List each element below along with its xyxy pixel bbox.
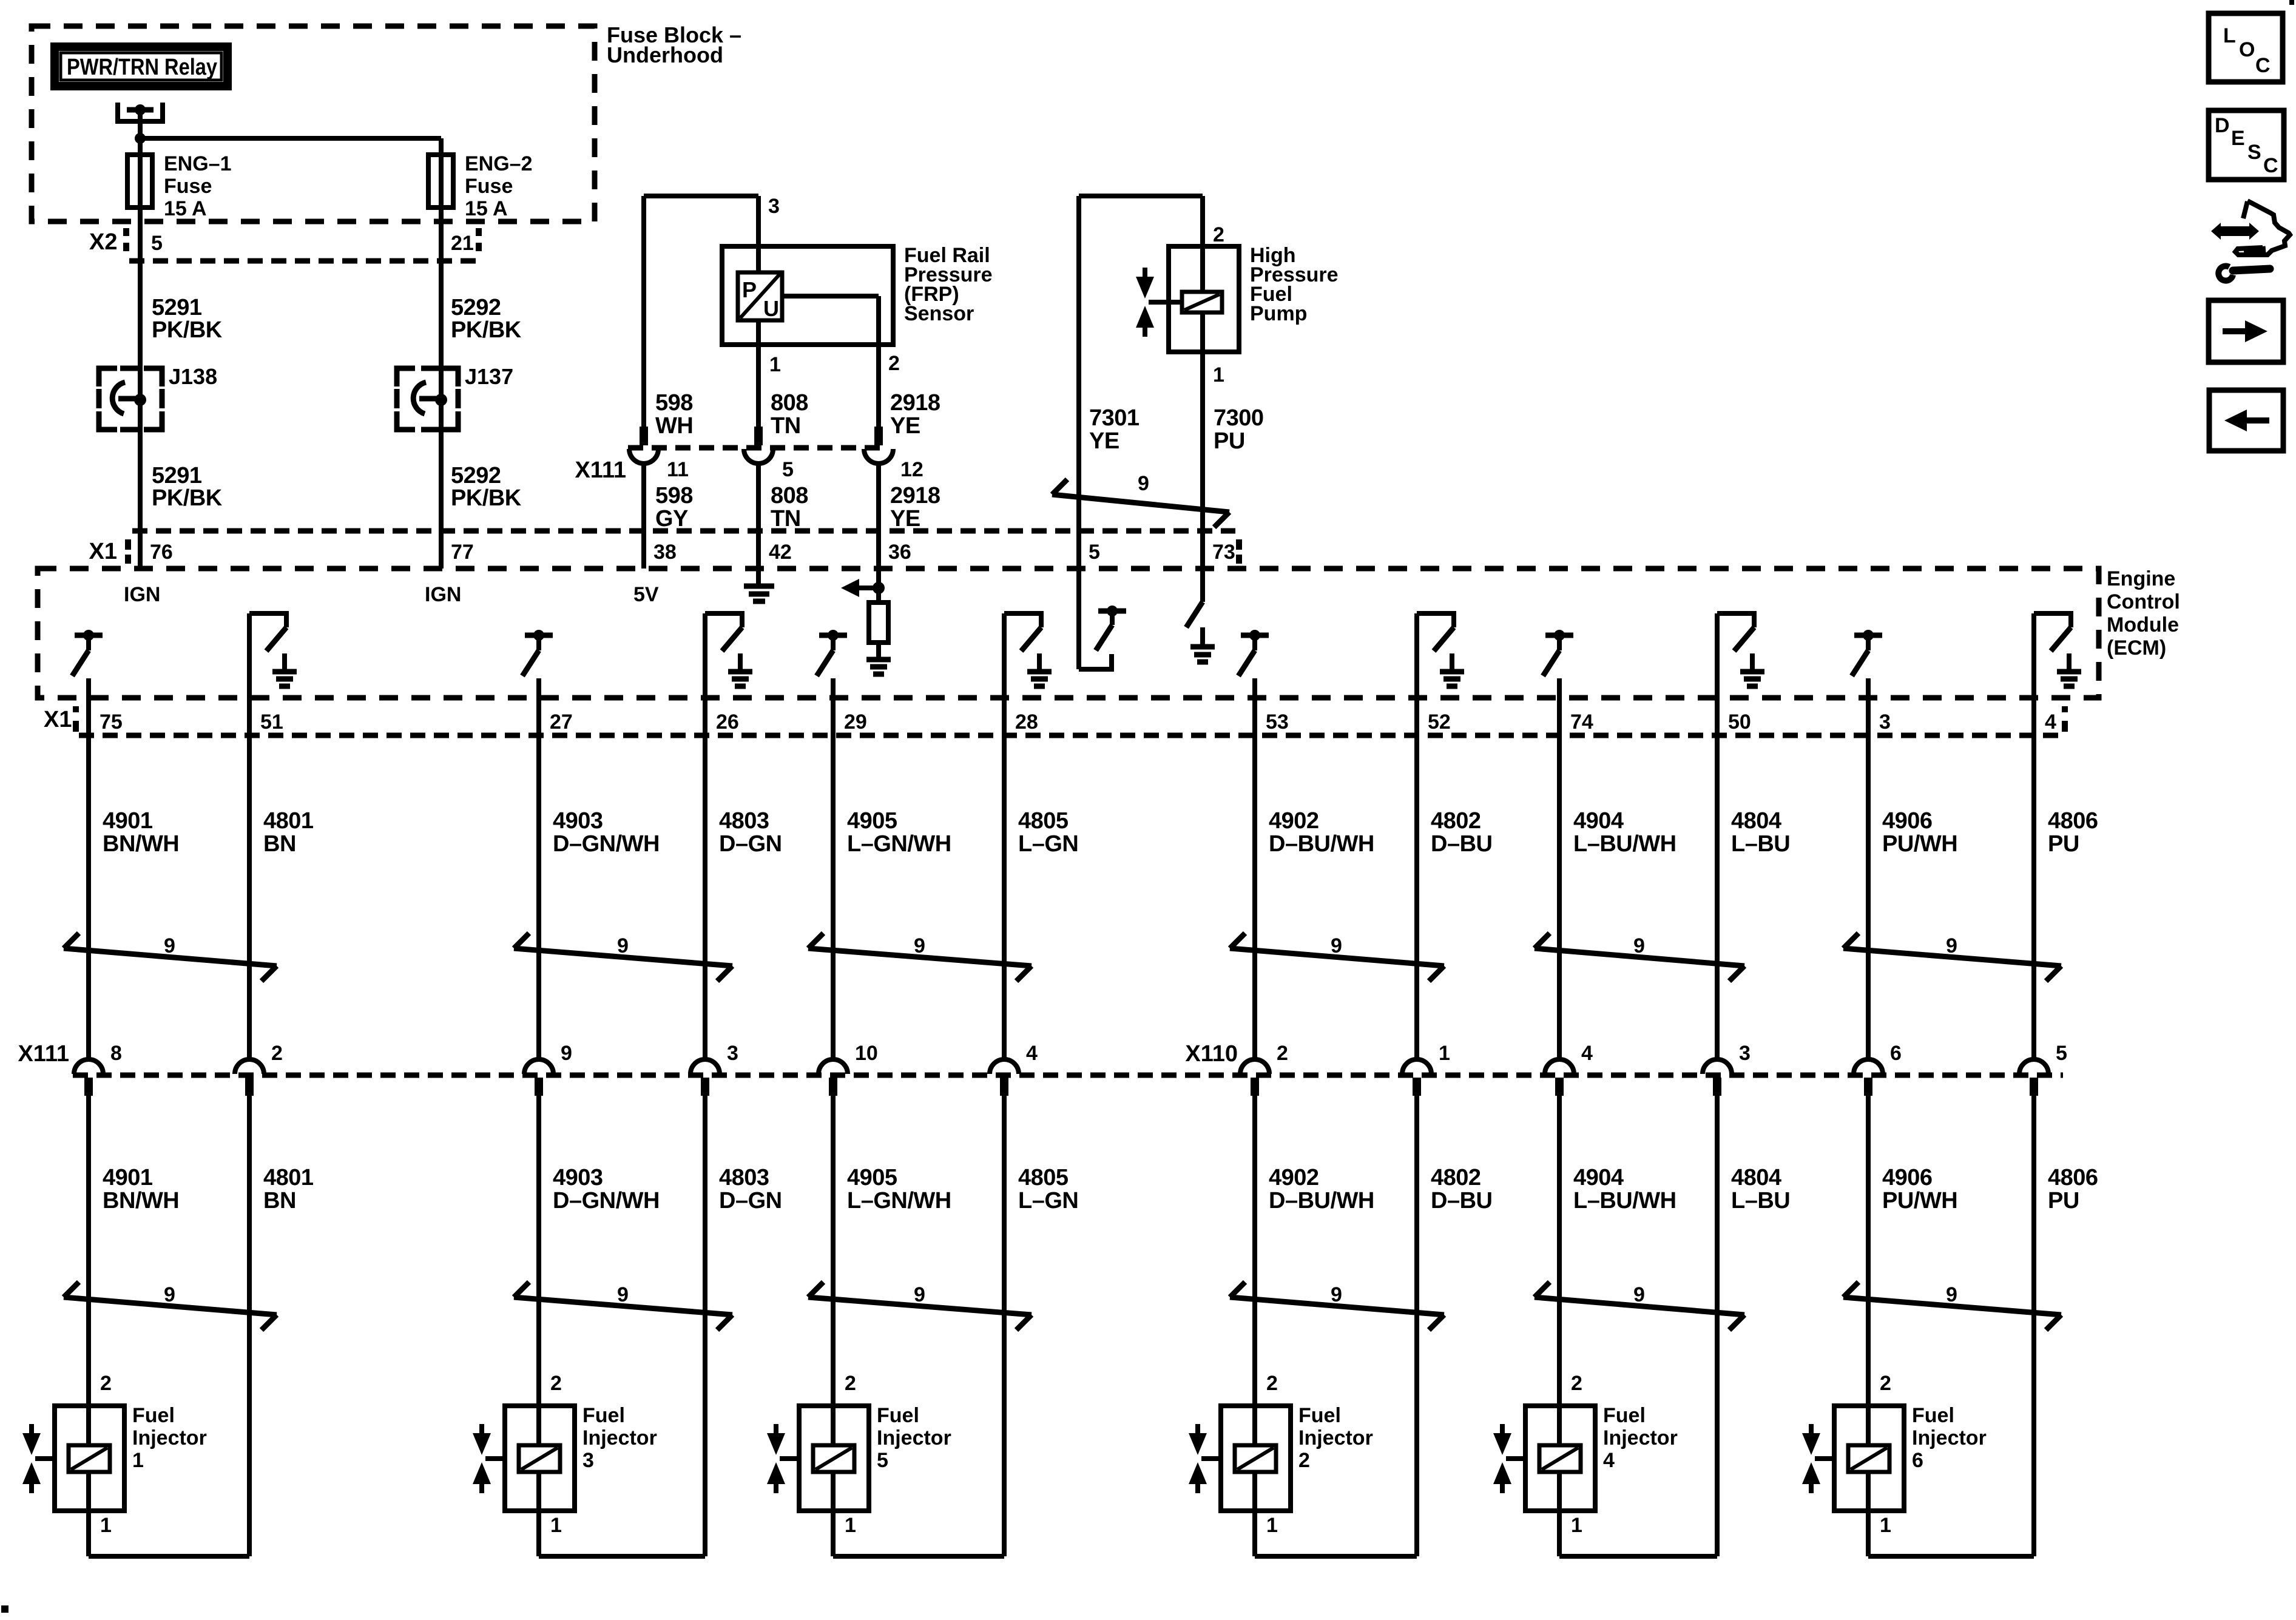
svg-text:2: 2 bbox=[888, 352, 900, 375]
svg-text:Fuel: Fuel bbox=[877, 1404, 919, 1427]
svg-text:2: 2 bbox=[1213, 223, 1224, 246]
svg-text:C: C bbox=[2263, 154, 2278, 177]
svg-text:4805: 4805 bbox=[1018, 808, 1069, 834]
svg-text:4902: 4902 bbox=[1269, 1165, 1319, 1190]
svg-text:74: 74 bbox=[1570, 710, 1593, 734]
svg-text:BN: BN bbox=[263, 831, 296, 857]
svg-text:4802: 4802 bbox=[1431, 1165, 1481, 1190]
svg-text:Injector: Injector bbox=[582, 1426, 657, 1450]
svg-text:PU/WH: PU/WH bbox=[1882, 1188, 1957, 1213]
svg-text:Fuse: Fuse bbox=[164, 175, 212, 198]
svg-text:4903: 4903 bbox=[553, 808, 603, 834]
svg-text:2: 2 bbox=[1266, 1372, 1278, 1395]
svg-text:9: 9 bbox=[1331, 1283, 1342, 1306]
svg-text:YE: YE bbox=[890, 413, 920, 439]
svg-text:D–BU/WH: D–BU/WH bbox=[1269, 831, 1374, 857]
svg-text:PU: PU bbox=[2048, 1188, 2079, 1213]
svg-text:5: 5 bbox=[2056, 1042, 2067, 1065]
svg-text:808: 808 bbox=[771, 483, 808, 508]
svg-text:D–BU: D–BU bbox=[1431, 1188, 1492, 1213]
svg-text:2: 2 bbox=[1880, 1372, 1891, 1395]
svg-text:Underhood: Underhood bbox=[607, 42, 723, 67]
svg-text:1: 1 bbox=[1571, 1514, 1582, 1537]
svg-text:2: 2 bbox=[1571, 1372, 1582, 1395]
svg-text:D–GN/WH: D–GN/WH bbox=[553, 1188, 660, 1213]
svg-text:4801: 4801 bbox=[263, 1165, 314, 1190]
svg-text:1: 1 bbox=[769, 353, 781, 376]
svg-text:2: 2 bbox=[1298, 1449, 1310, 1472]
svg-text:42: 42 bbox=[769, 541, 792, 564]
svg-text:4805: 4805 bbox=[1018, 1165, 1069, 1190]
svg-text:L–GN: L–GN bbox=[1018, 831, 1078, 857]
svg-text:E: E bbox=[2231, 127, 2245, 150]
svg-text:J137: J137 bbox=[465, 364, 513, 389]
svg-text:2: 2 bbox=[845, 1372, 856, 1395]
svg-text:9: 9 bbox=[1331, 934, 1342, 957]
svg-text:1: 1 bbox=[100, 1514, 112, 1537]
svg-text:9: 9 bbox=[164, 1283, 175, 1306]
svg-text:2: 2 bbox=[271, 1042, 283, 1065]
svg-text:9: 9 bbox=[561, 1042, 572, 1065]
svg-text:9: 9 bbox=[164, 934, 175, 957]
svg-text:Injector: Injector bbox=[132, 1426, 207, 1450]
svg-text:J138: J138 bbox=[169, 364, 217, 389]
svg-text:Module: Module bbox=[2107, 613, 2179, 636]
svg-text:12: 12 bbox=[900, 458, 923, 481]
svg-text:73: 73 bbox=[1212, 541, 1235, 564]
svg-text:2918: 2918 bbox=[890, 390, 940, 416]
svg-text:75: 75 bbox=[100, 710, 123, 734]
svg-text:BN: BN bbox=[263, 1188, 296, 1213]
svg-text:5: 5 bbox=[782, 458, 794, 481]
svg-text:L–GN: L–GN bbox=[1018, 1188, 1078, 1213]
svg-text:IGN: IGN bbox=[124, 583, 160, 606]
svg-text:Pump: Pump bbox=[1250, 302, 1307, 325]
svg-text:PU/WH: PU/WH bbox=[1882, 831, 1957, 857]
svg-text:X1: X1 bbox=[44, 707, 72, 732]
svg-text:O: O bbox=[2239, 38, 2255, 61]
svg-text:4905: 4905 bbox=[847, 808, 897, 834]
svg-text:D: D bbox=[2215, 114, 2230, 137]
svg-text:IGN: IGN bbox=[425, 583, 461, 606]
svg-text:PK/BK: PK/BK bbox=[451, 485, 522, 511]
svg-text:L–BU: L–BU bbox=[1731, 1188, 1790, 1213]
svg-text:4906: 4906 bbox=[1882, 1165, 1933, 1190]
svg-text:3: 3 bbox=[1739, 1042, 1751, 1065]
svg-text:PWR/TRN Relay: PWR/TRN Relay bbox=[67, 55, 217, 80]
svg-text:3: 3 bbox=[727, 1042, 738, 1065]
svg-text:5292: 5292 bbox=[451, 463, 501, 488]
svg-text:YE: YE bbox=[890, 506, 920, 532]
svg-text:Fuel: Fuel bbox=[582, 1404, 625, 1427]
svg-text:36: 36 bbox=[888, 541, 911, 564]
svg-text:4806: 4806 bbox=[2048, 1165, 2098, 1190]
svg-text:50: 50 bbox=[1728, 710, 1751, 734]
svg-text:4904: 4904 bbox=[1573, 1165, 1624, 1190]
svg-text:X111: X111 bbox=[18, 1041, 69, 1067]
svg-text:28: 28 bbox=[1015, 710, 1038, 734]
svg-text:YE: YE bbox=[1089, 428, 1119, 454]
svg-text:51: 51 bbox=[260, 710, 283, 734]
svg-text:4902: 4902 bbox=[1269, 808, 1319, 834]
svg-text:4: 4 bbox=[1581, 1042, 1593, 1065]
svg-text:Injector: Injector bbox=[877, 1426, 951, 1450]
svg-text:4: 4 bbox=[1026, 1042, 1038, 1065]
svg-text:BN/WH: BN/WH bbox=[103, 831, 179, 857]
svg-text:3: 3 bbox=[1879, 710, 1891, 734]
svg-text:3: 3 bbox=[768, 195, 780, 218]
svg-text:PK/BK: PK/BK bbox=[152, 317, 223, 343]
svg-text:9: 9 bbox=[1946, 934, 1957, 957]
svg-text:4: 4 bbox=[2045, 710, 2056, 734]
svg-text:29: 29 bbox=[844, 710, 867, 734]
svg-text:(ECM): (ECM) bbox=[2107, 636, 2166, 660]
svg-text:4801: 4801 bbox=[263, 808, 314, 834]
svg-text:5292: 5292 bbox=[451, 295, 501, 320]
svg-text:76: 76 bbox=[150, 541, 173, 564]
svg-text:Fuel: Fuel bbox=[1912, 1404, 1954, 1427]
svg-text:L: L bbox=[2223, 24, 2236, 47]
svg-text:9: 9 bbox=[617, 1283, 629, 1306]
svg-text:2: 2 bbox=[550, 1372, 562, 1395]
svg-text:D–BU/WH: D–BU/WH bbox=[1269, 1188, 1374, 1213]
svg-text:5: 5 bbox=[151, 232, 163, 255]
svg-text:2: 2 bbox=[1277, 1042, 1288, 1065]
svg-text:PK/BK: PK/BK bbox=[451, 317, 522, 343]
svg-text:Injector: Injector bbox=[1603, 1426, 1678, 1450]
svg-text:11: 11 bbox=[667, 458, 689, 481]
svg-text:1: 1 bbox=[1266, 1514, 1278, 1537]
svg-text:4905: 4905 bbox=[847, 1165, 897, 1190]
svg-text:Injector: Injector bbox=[1912, 1426, 1987, 1450]
svg-text:4804: 4804 bbox=[1731, 1165, 1781, 1190]
svg-text:ENG–2: ENG–2 bbox=[465, 152, 533, 175]
svg-text:6: 6 bbox=[1912, 1449, 1923, 1472]
svg-text:8: 8 bbox=[110, 1042, 122, 1065]
svg-text:4904: 4904 bbox=[1573, 808, 1624, 834]
svg-text:7300: 7300 bbox=[1214, 405, 1264, 431]
svg-text:WH: WH bbox=[655, 413, 693, 439]
svg-text:598: 598 bbox=[655, 483, 693, 508]
svg-text:10: 10 bbox=[855, 1042, 878, 1065]
svg-text:15 A: 15 A bbox=[164, 197, 207, 220]
svg-text:2918: 2918 bbox=[890, 483, 940, 508]
svg-text:Fuel: Fuel bbox=[1603, 1404, 1646, 1427]
svg-text:GY: GY bbox=[655, 506, 688, 532]
svg-text:D–GN/WH: D–GN/WH bbox=[553, 831, 660, 857]
svg-text:27: 27 bbox=[550, 710, 573, 734]
svg-text:5V: 5V bbox=[633, 583, 659, 606]
svg-text:4802: 4802 bbox=[1431, 808, 1481, 834]
svg-text:U: U bbox=[763, 296, 779, 321]
svg-text:2: 2 bbox=[100, 1372, 112, 1395]
svg-text:4: 4 bbox=[1603, 1449, 1615, 1472]
svg-text:808: 808 bbox=[771, 390, 808, 416]
svg-text:PU: PU bbox=[1214, 428, 1245, 454]
svg-text:7301: 7301 bbox=[1089, 405, 1140, 431]
svg-text:TN: TN bbox=[771, 506, 801, 532]
svg-text:L–GN/WH: L–GN/WH bbox=[847, 831, 951, 857]
svg-text:L–BU/WH: L–BU/WH bbox=[1573, 831, 1676, 857]
svg-text:5: 5 bbox=[877, 1449, 888, 1472]
svg-text:4803: 4803 bbox=[719, 808, 769, 834]
svg-text:9: 9 bbox=[914, 934, 925, 957]
svg-text:15 A: 15 A bbox=[465, 197, 508, 220]
svg-text:1: 1 bbox=[132, 1449, 144, 1472]
svg-text:26: 26 bbox=[716, 710, 739, 734]
svg-text:D–BU: D–BU bbox=[1431, 831, 1492, 857]
svg-text:5291: 5291 bbox=[152, 463, 202, 488]
svg-text:1: 1 bbox=[1439, 1042, 1450, 1065]
svg-text:S: S bbox=[2247, 141, 2261, 164]
svg-text:P: P bbox=[742, 277, 757, 302]
svg-text:4803: 4803 bbox=[719, 1165, 769, 1190]
svg-text:5: 5 bbox=[1089, 541, 1100, 564]
svg-text:D–GN: D–GN bbox=[719, 831, 782, 857]
svg-text:4901: 4901 bbox=[103, 808, 153, 834]
svg-text:BN/WH: BN/WH bbox=[103, 1188, 179, 1213]
svg-text:L–BU: L–BU bbox=[1731, 831, 1790, 857]
svg-text:Injector: Injector bbox=[1298, 1426, 1373, 1450]
svg-text:TN: TN bbox=[771, 413, 801, 439]
svg-text:D–GN: D–GN bbox=[719, 1188, 782, 1213]
svg-text:Fuel: Fuel bbox=[1298, 1404, 1341, 1427]
svg-text:9: 9 bbox=[1946, 1283, 1957, 1306]
svg-text:9: 9 bbox=[1633, 934, 1645, 957]
svg-text:3: 3 bbox=[582, 1449, 594, 1472]
svg-text:L–BU/WH: L–BU/WH bbox=[1573, 1188, 1676, 1213]
svg-text:X1: X1 bbox=[89, 539, 117, 564]
svg-text:PK/BK: PK/BK bbox=[152, 485, 223, 511]
svg-text:C: C bbox=[2255, 54, 2271, 77]
svg-text:77: 77 bbox=[451, 541, 474, 564]
svg-text:Sensor: Sensor bbox=[904, 302, 974, 325]
svg-text:9: 9 bbox=[1633, 1283, 1645, 1306]
svg-text:1: 1 bbox=[845, 1514, 856, 1537]
svg-text:5291: 5291 bbox=[152, 295, 202, 320]
svg-text:Fuse: Fuse bbox=[465, 175, 513, 198]
svg-text:9: 9 bbox=[1138, 472, 1149, 495]
svg-text:PU: PU bbox=[2048, 831, 2079, 857]
svg-text:Engine: Engine bbox=[2107, 567, 2175, 590]
svg-text:ENG–1: ENG–1 bbox=[164, 152, 232, 175]
svg-text:1: 1 bbox=[550, 1514, 562, 1537]
svg-text:1: 1 bbox=[1213, 363, 1224, 386]
svg-text:4806: 4806 bbox=[2048, 808, 2098, 834]
svg-text:X110: X110 bbox=[1185, 1041, 1238, 1067]
svg-text:4906: 4906 bbox=[1882, 808, 1933, 834]
svg-text:9: 9 bbox=[914, 1283, 925, 1306]
svg-text:4804: 4804 bbox=[1731, 808, 1781, 834]
svg-text:52: 52 bbox=[1428, 710, 1451, 734]
svg-text:21: 21 bbox=[451, 232, 474, 255]
svg-text:6: 6 bbox=[1890, 1042, 1902, 1065]
svg-text:X111: X111 bbox=[575, 457, 626, 483]
svg-text:53: 53 bbox=[1266, 710, 1289, 734]
svg-text:9: 9 bbox=[617, 934, 629, 957]
svg-text:38: 38 bbox=[653, 541, 677, 564]
svg-text:L–GN/WH: L–GN/WH bbox=[847, 1188, 951, 1213]
svg-text:Fuel: Fuel bbox=[132, 1404, 175, 1427]
svg-text:598: 598 bbox=[655, 390, 693, 416]
svg-text:1: 1 bbox=[1880, 1514, 1891, 1537]
svg-text:Control: Control bbox=[2107, 590, 2180, 613]
svg-text:X2: X2 bbox=[89, 229, 117, 255]
svg-text:4901: 4901 bbox=[103, 1165, 153, 1190]
svg-text:4903: 4903 bbox=[553, 1165, 603, 1190]
